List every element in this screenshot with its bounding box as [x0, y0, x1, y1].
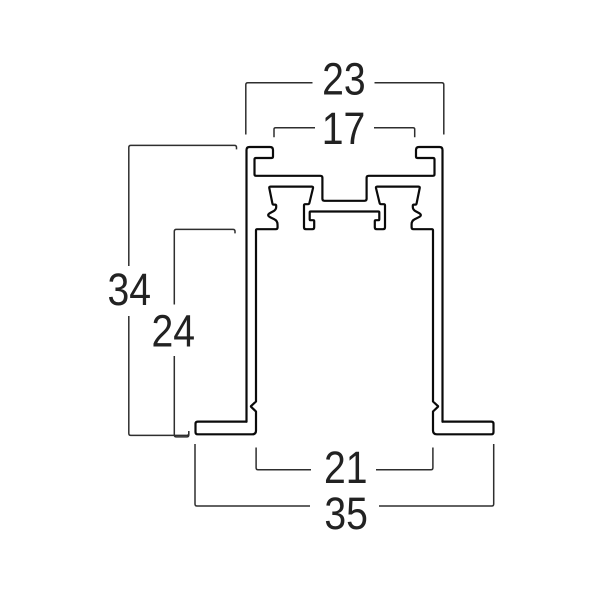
- svg-text:24: 24: [151, 306, 195, 356]
- svg-text:17: 17: [322, 103, 366, 153]
- svg-text:35: 35: [324, 489, 368, 539]
- svg-text:21: 21: [324, 443, 368, 493]
- svg-text:23: 23: [322, 54, 366, 104]
- svg-text:34: 34: [108, 264, 152, 314]
